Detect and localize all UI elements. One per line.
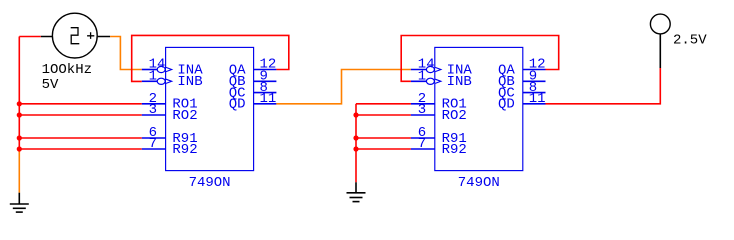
U1 INA clock bubble — [157, 66, 165, 72]
wire QD2 to probe — [546, 68, 661, 104]
wire mid bus to R02 — [356, 114, 411, 116]
wire QD1 to INA2 orange — [276, 70, 411, 104]
svg-text:749ON: 749ON — [189, 175, 231, 191]
ground GND2 — [347, 182, 366, 201]
wire left bus to ground orange — [18, 149, 20, 193]
svg-text:7: 7 — [149, 136, 157, 152]
svg-text:RO2: RO2 — [442, 108, 467, 124]
junction dots left bus — [17, 101, 22, 151]
U1 INB clock bubble — [157, 78, 165, 84]
wire bus to R91 pin 6 — [19, 137, 142, 139]
svg-text:2.5V: 2.5V — [673, 32, 707, 48]
svg-text:1: 1 — [149, 69, 157, 85]
junction dots mid bus — [353, 112, 358, 151]
wire source to left bus — [19, 36, 41, 38]
svg-text:QD: QD — [229, 97, 246, 113]
wire mid bus vertical — [355, 104, 357, 183]
U1 INA clock arrow — [166, 67, 172, 71]
wire QA2 feedback to INB2 — [401, 36, 559, 82]
svg-text:R92: R92 — [172, 142, 197, 158]
svg-text:INB: INB — [447, 74, 472, 90]
wire left bus vertical red — [18, 37, 20, 150]
U1 pin stubs — [142, 70, 277, 150]
U2 pin stubs — [411, 70, 546, 150]
probe lead black — [659, 35, 661, 69]
wire bus to R92 pin 7 — [19, 148, 142, 150]
U2 INB clock arrow — [435, 79, 441, 83]
svg-text:5V: 5V — [42, 77, 59, 93]
wire bus to R02 pin 3 — [19, 114, 142, 116]
svg-text:R92: R92 — [442, 142, 467, 158]
svg-text:3: 3 — [149, 102, 157, 118]
U2 INA clock arrow — [435, 67, 441, 71]
wire mid bus to R92 — [356, 148, 411, 150]
IC U1 7490N body — [166, 47, 254, 170]
IC U2 7490N body — [435, 47, 523, 170]
svg-text:1: 1 — [418, 69, 426, 85]
svg-text:1OOkHz: 1OOkHz — [42, 62, 92, 78]
svg-text:RO2: RO2 — [172, 108, 197, 124]
ground GND1 — [10, 193, 29, 212]
wire mid bus to R91 — [356, 137, 411, 139]
svg-text:11: 11 — [529, 91, 546, 107]
svg-text:INB: INB — [177, 74, 202, 90]
wire QA1 feedback to INB1 — [132, 35, 289, 81]
svg-text:749ON: 749ON — [458, 175, 500, 191]
wire mid bus to R01 pin 2 of U2 — [356, 103, 411, 105]
wire bus to R01 pin 2 — [19, 103, 142, 105]
svg-text:11: 11 — [260, 91, 277, 107]
svg-text:7: 7 — [418, 136, 426, 152]
svg-text:QD: QD — [498, 97, 515, 113]
svg-text:3: 3 — [418, 102, 426, 118]
wire source to INA1 orange — [110, 37, 142, 70]
U2 INB clock bubble — [426, 78, 434, 84]
U1 INB clock arrow — [166, 79, 172, 83]
clock source V2 — [41, 13, 110, 58]
U2 INA clock bubble — [426, 66, 434, 72]
probe circle — [650, 14, 670, 34]
